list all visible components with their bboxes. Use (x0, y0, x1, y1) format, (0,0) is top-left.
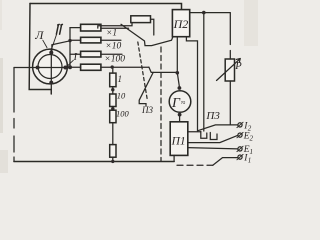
svg-text:П3: П3 (205, 110, 220, 122)
svg-text:Г: Г (171, 96, 181, 111)
svg-text:I: I (73, 52, 78, 63)
svg-text:2: 2 (250, 134, 254, 142)
svg-text:П1: П1 (171, 136, 186, 148)
svg-text:≈: ≈ (181, 98, 186, 107)
svg-text:100: 100 (116, 108, 130, 118)
svg-text:×10: ×10 (105, 41, 121, 51)
svg-text:Р: Р (234, 61, 242, 72)
svg-text:Л: Л (34, 28, 44, 42)
svg-text:10: 10 (117, 90, 126, 100)
svg-text:1: 1 (248, 156, 252, 164)
svg-text:×100: ×100 (104, 54, 125, 64)
svg-text:П3: П3 (141, 105, 153, 115)
svg-text:1: 1 (118, 74, 123, 84)
svg-text:×1: ×1 (106, 28, 117, 38)
svg-text:1: 1 (250, 148, 254, 156)
svg-text:П2: П2 (173, 17, 189, 31)
